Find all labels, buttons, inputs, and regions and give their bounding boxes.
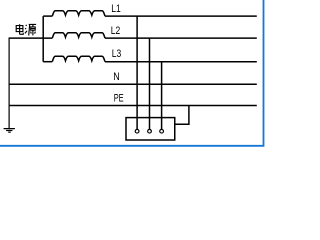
inductor L1 [52,11,105,16]
svg-text:L1: L1 [111,3,121,15]
wire: PE bus [9,105,257,107]
wire: L2 lead [43,37,52,39]
svg-text:N: N [113,71,120,83]
wire: L3 bus [105,61,257,63]
terminal 1 [135,129,139,133]
wire: phase distribution vertical bus [42,16,44,62]
wire: L1 lead [43,15,52,17]
wire: L2 drop to terminal 2 [149,38,151,129]
wire: L3 drop to terminal 3 [161,62,163,130]
wire: L2 bus [105,37,257,39]
svg-text:L2: L2 [111,25,121,37]
wire: left vertical earth bus [8,38,10,129]
wire: PE connection from box to PE bus [175,106,189,125]
wire: N bus [9,83,257,85]
terminal box (load equipment) [126,118,175,140]
wire: L1 drop to terminal 1 [136,16,138,129]
wire: L3 lead [43,61,52,63]
terminal 2 [148,129,152,133]
inductor L2 [52,33,105,38]
wire: L1 bus [105,15,257,17]
svg-text:PE: PE [114,92,124,104]
wire: feed from left bus to phase bus (L2 level) [9,37,43,39]
ground (earth) symbol [4,129,15,133]
svg-text:L3: L3 [112,48,122,60]
terminal 3 [160,129,164,133]
label 电源 (power source) [16,24,36,35]
inductor L3 [52,56,105,61]
